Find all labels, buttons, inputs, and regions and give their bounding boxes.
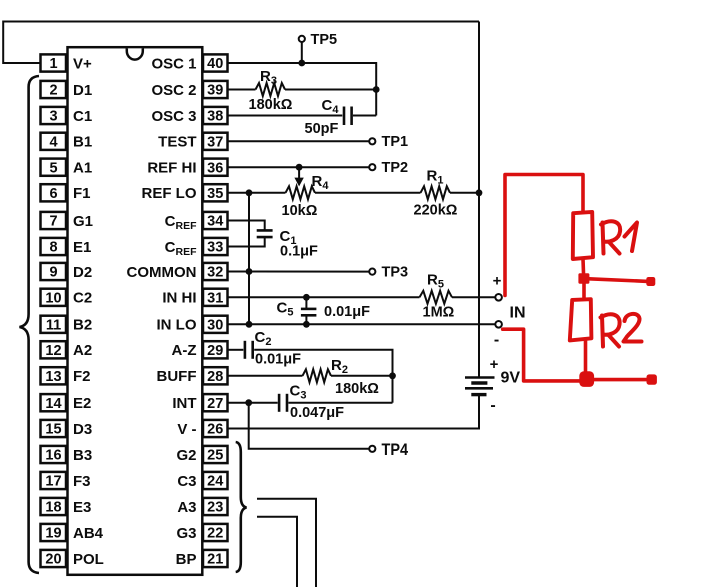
svg-text:TP4: TP4 [382,441,409,459]
wire C4 to OSC loop [353,115,376,117]
pin 4 box [41,133,67,150]
wire pin 38 OSC 3 [228,115,343,117]
label R2 red handwritten [601,314,642,347]
svg-text:1: 1 [49,56,57,72]
node IN plus terminal [495,294,502,301]
svg-text:BUFF: BUFF [157,368,197,385]
pin 7 box [41,212,67,229]
svg-text:OSC 1: OSC 1 [151,55,196,72]
pin 32 box [203,263,228,280]
svg-text:24: 24 [207,474,223,490]
svg-text:TP5: TP5 [311,32,338,48]
capacitor C4 [344,107,352,126]
wire R2 junction to C3 [392,376,394,403]
resistor R4 [286,186,316,199]
wire R2 to junction [331,375,393,377]
svg-text:G3: G3 [176,525,196,542]
node IN minus terminal [495,321,502,328]
pin 11 box [41,316,67,333]
wire INT to TP4 [249,403,370,449]
svg-text:A1: A1 [73,160,92,177]
svg-text:OSC 3: OSC 3 [151,108,196,125]
svg-text:34: 34 [207,214,223,230]
svg-text:6: 6 [49,186,57,202]
pin 22 box [203,524,228,541]
svg-text:0.047μF: 0.047μF [290,405,344,421]
node red bottom right end pad [647,374,657,384]
svg-text:50pF: 50pF [305,121,339,137]
resistor R1 [421,186,451,199]
pin 18 box [41,498,67,515]
svg-text:2: 2 [49,83,57,99]
label R1 red handwritten [601,221,637,253]
svg-text:29: 29 [207,343,223,359]
pin 29 box [203,341,228,358]
svg-text:OSC 2: OSC 2 [151,82,196,99]
pin 19 box [41,524,67,541]
test point TP4 [369,446,375,452]
junction COMMON / CREF bus [246,268,253,275]
junction red tap node [578,273,589,284]
svg-text:E2: E2 [73,395,91,412]
junction REF HI / R4 wiper [296,164,303,171]
svg-text:30: 30 [207,318,223,334]
pin 2 box [41,81,67,98]
svg-text:-: - [490,397,495,414]
pin 5 box [41,159,67,176]
svg-text:V+: V+ [73,55,92,72]
pin 10 box [41,289,67,306]
wire CREF bus [248,193,250,324]
wire pin 30 IN LO [228,323,496,325]
wire pin 27 INT [228,402,278,404]
svg-text:180kΩ: 180kΩ [335,381,379,397]
test point TP1 [369,138,375,144]
svg-text:12: 12 [45,343,61,359]
svg-text:15: 15 [45,422,61,438]
pin 28 box [203,367,228,384]
svg-text:B3: B3 [73,447,92,464]
wire R1 to V+ bus [450,192,479,194]
resistor R5 [420,291,453,304]
pin 3 box [41,107,67,124]
svg-text:IN LO: IN LO [157,317,197,334]
wire red R1 bottom to tap [581,259,585,273]
pin 6 box [41,184,67,201]
svg-text:C3: C3 [177,473,196,490]
svg-text:D2: D2 [73,264,92,281]
wire C3 to loop [288,402,392,404]
svg-text:A-Z: A-Z [172,342,197,359]
svg-text:5: 5 [49,160,57,176]
svg-text:TP3: TP3 [382,264,409,280]
capacitor C5 [301,297,317,324]
pin 17 box [41,472,67,489]
IC U1 orientation notch [127,48,143,59]
wire pin 34 CREF [228,221,265,231]
pin 9 box [41,263,67,280]
right brace pins 21-25 [236,442,247,572]
wire pin 32 COMMON to TP3 [228,271,370,273]
svg-text:10kΩ: 10kΩ [282,203,318,219]
pin 14 box [41,394,67,411]
wire display line B [257,517,297,587]
svg-text:F3: F3 [73,473,91,490]
wire V+ pin 1 top loop [3,22,479,64]
wire pin 31 IN HI [228,296,420,298]
wire red bottom node to right pad [592,378,649,382]
capacitor C2 [245,341,253,359]
wire R5 to IN plus [452,296,495,298]
svg-text:21: 21 [207,552,223,568]
pin 26 box [203,420,228,437]
resistor R1 red divider [573,212,593,259]
pin 30 box [203,316,228,333]
pin 27 box [203,394,228,411]
capacitor C3 [279,394,287,412]
svg-text:D3: D3 [73,421,92,438]
svg-text:F1: F1 [73,185,91,202]
pin 24 box [203,472,228,489]
pin 1 box [41,54,67,71]
wire R3 to OSC loop [285,89,376,91]
resistor R2 [303,369,332,382]
svg-text:V -: V - [177,421,196,438]
svg-text:REF HI: REF HI [147,160,196,177]
wire pin 40 OSC 1 [228,63,377,116]
left brace pins 2-20 [20,76,40,573]
test point TP3 [369,269,375,275]
svg-text:+: + [493,273,502,290]
svg-text:37: 37 [207,135,223,151]
svg-text:-: - [494,332,499,349]
junction REF LO / CREF bus [246,189,253,196]
pin 37 box [203,133,228,150]
svg-text:39: 39 [207,83,223,99]
pin 16 box [41,446,67,463]
svg-text:9: 9 [49,265,57,281]
svg-text:G1: G1 [73,213,93,230]
svg-text:38: 38 [207,109,223,125]
svg-text:13: 13 [45,369,61,385]
svg-text:27: 27 [207,396,223,412]
svg-text:31: 31 [207,291,223,307]
svg-text:20: 20 [45,552,61,568]
svg-text:4: 4 [49,135,57,151]
svg-text:COMMON: COMMON [127,264,197,281]
pin 35 box [203,184,228,201]
pin 40 box [203,54,228,71]
junction INT / TP4 drop [245,399,252,406]
svg-text:32: 32 [207,265,223,281]
svg-text:28: 28 [207,369,223,385]
junction R1 / V+ bus [476,189,483,196]
wire V+ right bus to battery plus [478,22,480,378]
wire red tap to R2 [582,284,586,299]
svg-text:19: 19 [45,526,61,542]
svg-text:INT: INT [172,395,196,412]
wire TP5 stub [301,42,303,63]
pin 33 box [203,238,228,255]
svg-text:E1: E1 [73,239,91,256]
pin 15 box [41,420,67,437]
wire R4 to R1 [315,192,421,194]
svg-text:G2: G2 [176,447,196,464]
potentiometer R4 wiper arrow [294,167,303,186]
svg-text:180kΩ: 180kΩ [249,97,293,113]
svg-text:14: 14 [45,396,61,412]
svg-text:+: + [490,356,499,373]
wire C2 to R2 junction [254,350,392,376]
svg-text:17: 17 [45,474,61,490]
svg-text:16: 16 [45,448,61,464]
svg-text:B2: B2 [73,317,92,334]
wire red wiper [589,279,648,282]
svg-text:23: 23 [207,500,223,516]
svg-text:TP2: TP2 [382,160,409,176]
svg-text:IN: IN [510,305,526,322]
svg-text:TP1: TP1 [382,134,409,150]
svg-text:25: 25 [207,448,223,464]
svg-text:F2: F2 [73,368,91,385]
test point TP5 [299,36,305,42]
svg-text:C1: C1 [73,108,92,125]
svg-text:0.1μF: 0.1μF [280,244,318,260]
junction IN LO / CREF bus [246,321,253,328]
junction red bottom node [579,371,594,387]
svg-text:36: 36 [207,160,223,176]
svg-text:11: 11 [46,318,61,334]
node red wiper end pad [646,277,655,286]
wire red IN plus to divider top [505,175,583,296]
svg-text:B1: B1 [73,134,92,151]
junction pin 40 / TP5 [298,60,305,67]
pin 13 box [41,367,67,384]
pin 34 box [203,212,228,229]
svg-text:E3: E3 [73,499,91,516]
svg-text:D1: D1 [73,82,92,99]
pin 8 box [41,238,67,255]
capacitor C1 [257,230,273,237]
pin 23 box [203,498,228,515]
svg-text:33: 33 [207,240,223,256]
pin 39 box [203,81,228,98]
svg-text:8: 8 [49,240,57,256]
svg-text:A3: A3 [177,499,196,516]
svg-text:REF LO: REF LO [142,185,197,202]
svg-text:10: 10 [45,291,61,307]
pin 20 box [41,550,67,567]
pin 38 box [203,107,228,124]
svg-text:C2: C2 [73,290,92,307]
wire red R2 bottom to ground node [584,340,588,372]
test point TP2 [369,164,375,170]
wire red IN minus to divider bottom [503,329,580,381]
svg-text:TEST: TEST [158,134,196,151]
svg-text:0.01μF: 0.01μF [255,352,301,368]
svg-text:IN HI: IN HI [162,290,196,307]
junction IN LO / C5 [303,321,310,328]
pin 31 box [203,289,228,306]
svg-text:40: 40 [207,56,223,72]
svg-text:3: 3 [49,109,57,125]
svg-text:35: 35 [207,186,223,202]
wire pin 28 BUFF [228,375,303,377]
svg-text:18: 18 [45,500,61,516]
svg-text:0.01μF: 0.01μF [324,304,370,320]
svg-text:22: 22 [207,526,223,542]
junction R2 / A-Z [389,372,396,379]
pin 25 box [203,446,228,463]
svg-text:9V: 9V [501,370,521,387]
pin 12 box [41,341,67,358]
wire display line A [257,499,316,587]
battery BT1 9V [465,378,495,395]
resistor R2 red divider [570,299,592,340]
svg-text:A2: A2 [73,342,92,359]
wire pin 35 REF LO [228,192,286,194]
wire pin 36 REF HI to TP2 [228,166,370,168]
svg-text:7: 7 [49,214,57,230]
op-amp U1 IC body DIP-40 [68,47,203,575]
svg-text:AB4: AB4 [73,525,104,542]
wire pin 29 A-Z [228,349,244,351]
junction R3 / OSC loop [373,86,380,93]
wire pin 33 CREF [228,238,265,247]
wire pin 39 OSC 2 [228,89,256,91]
pin 36 box [203,159,228,176]
svg-text:26: 26 [207,422,223,438]
wire pin 37 TEST to TP1 [228,140,370,142]
junction IN HI / C5 [303,294,310,301]
svg-text:1MΩ: 1MΩ [423,305,455,321]
svg-text:BP: BP [176,551,197,568]
pin 21 box [203,550,228,567]
resistor R3 [256,83,286,96]
svg-text:POL: POL [73,551,104,568]
wire pin 26 V- to battery minus [228,395,480,429]
svg-text:220kΩ: 220kΩ [414,203,458,219]
